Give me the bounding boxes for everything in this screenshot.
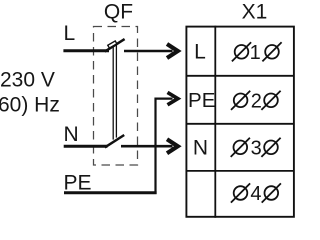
svg-text:L: L — [64, 22, 76, 45]
svg-text:QF: QF — [104, 1, 133, 24]
terminal 4 screw left — [231, 183, 250, 202]
svg-text:X1: X1 — [242, 1, 268, 24]
terminal 4 screw right — [262, 183, 281, 202]
terminal 2 screw right — [261, 91, 280, 110]
terminal block X1 frame — [186, 27, 294, 217]
svg-text:3: 3 — [251, 137, 262, 159]
terminal 2 screw left — [231, 91, 250, 110]
breaker QF dashed enclosure — [94, 27, 138, 166]
arrow to terminal 1 — [167, 44, 178, 58]
terminal 1 screw right — [262, 42, 281, 61]
svg-text:PE: PE — [188, 89, 215, 112]
wire PE horizontal — [64, 191, 157, 194]
wire L — [63, 49, 109, 52]
wire PE riser — [154, 98, 156, 195]
svg-text:N: N — [64, 123, 79, 146]
terminal block row divider 2 — [186, 123, 295, 125]
svg-text:230 V: 230 V — [0, 69, 55, 92]
svg-text:N: N — [193, 137, 208, 160]
terminal block row divider 3 — [186, 170, 295, 172]
linkage between poles — [112, 46, 114, 140]
wire N — [64, 145, 108, 148]
svg-text:1: 1 — [250, 42, 261, 64]
svg-text:60) Hz: 60) Hz — [0, 94, 60, 117]
terminal block divider column — [214, 26, 216, 218]
breaker pole L body — [108, 41, 117, 48]
terminal 3 screw right — [261, 138, 280, 157]
terminal block row divider 1 — [186, 75, 295, 77]
wire N to X1 — [121, 145, 173, 148]
svg-text:L: L — [194, 41, 206, 64]
arrow to terminal 3 — [167, 139, 178, 153]
terminal 1 screw left — [232, 42, 251, 61]
wire PE to X1 — [156, 97, 173, 99]
wire L to X1 — [124, 50, 173, 53]
svg-text:2: 2 — [251, 90, 262, 112]
terminal 3 screw left — [231, 138, 250, 157]
svg-text:PE: PE — [64, 172, 92, 195]
breaker pole N blade — [105, 135, 124, 147]
arrow to terminal 2 — [168, 92, 178, 104]
breaker pole L blade — [105, 39, 125, 52]
svg-text:4: 4 — [250, 183, 261, 205]
